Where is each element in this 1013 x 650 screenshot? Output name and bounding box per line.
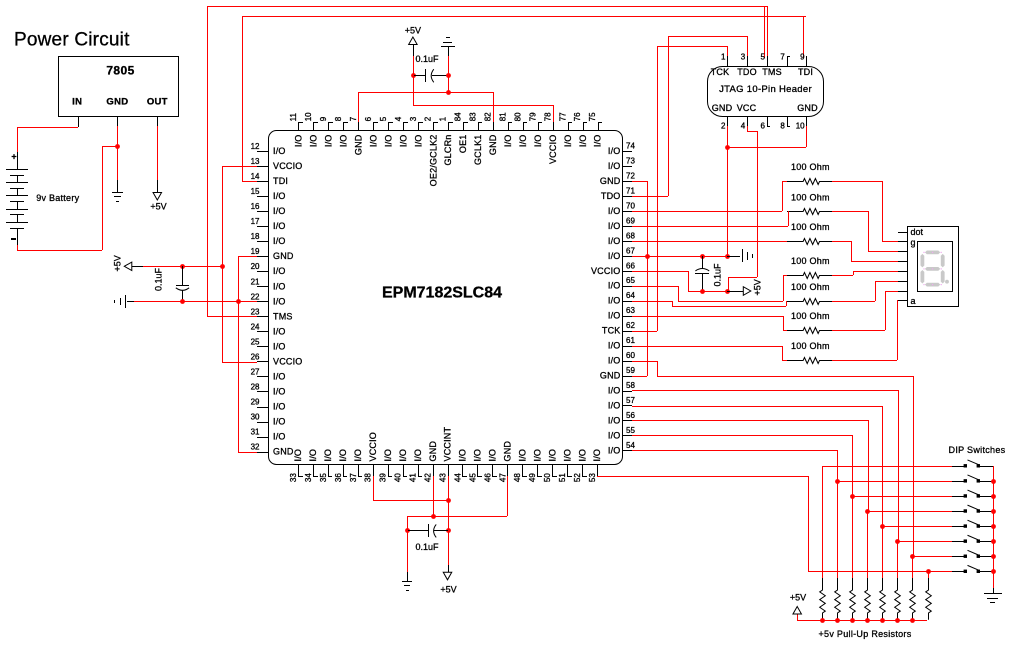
svg-text:4: 4 xyxy=(394,116,403,121)
svg-text:12: 12 xyxy=(251,142,260,151)
wire: column 2 down to pull-up RP2 xyxy=(837,481,839,578)
svg-text:GND: GND xyxy=(273,251,294,261)
svg-text:52: 52 xyxy=(573,473,582,482)
svg-text:TDO: TDO xyxy=(737,67,757,77)
svg-text:+5V: +5V xyxy=(113,255,123,271)
svg-text:I/O: I/O xyxy=(323,449,333,462)
junction: pull-up rail RP6 xyxy=(895,618,900,623)
svg-text:I/O: I/O xyxy=(273,266,286,276)
battery BT1 9v Battery xyxy=(6,151,80,245)
wire: ground rail pin42/pin47 to C3 left xyxy=(407,476,508,530)
wire: column 8 down to pull-up RP8 xyxy=(928,571,930,578)
svg-text:I/O: I/O xyxy=(578,135,588,148)
svg-text:TCK: TCK xyxy=(602,326,621,336)
svg-text:GND: GND xyxy=(600,176,621,186)
svg-text:JTAG 10-Pin Header: JTAG 10-Pin Header xyxy=(719,84,812,95)
ground: right of C2 xyxy=(727,249,753,262)
svg-text:79: 79 xyxy=(528,112,537,121)
svg-text:53: 53 xyxy=(588,473,597,482)
wire: TDO net J1 pin3 to U1 pin71 xyxy=(632,36,748,197)
svg-text:I/O: I/O xyxy=(488,449,498,462)
wire: R1 to display g xyxy=(832,181,898,242)
svg-text:67: 67 xyxy=(626,246,635,255)
svg-text:+5V: +5V xyxy=(753,279,763,295)
svg-text:I/O: I/O xyxy=(383,135,393,148)
wire: U1 pin68 to R3 xyxy=(632,241,787,243)
svg-text:1: 1 xyxy=(439,116,448,121)
svg-text:100 Ohm: 100 Ohm xyxy=(791,256,830,266)
svg-text:I/O: I/O xyxy=(518,135,528,148)
svg-text:TMS: TMS xyxy=(762,67,782,77)
svg-text:0.1uF: 0.1uF xyxy=(416,542,440,552)
svg-text:I/O: I/O xyxy=(339,135,349,148)
svg-text:a: a xyxy=(911,296,916,306)
svg-text:7: 7 xyxy=(349,116,358,121)
svg-text:I/O: I/O xyxy=(273,371,286,381)
svg-text:68: 68 xyxy=(626,231,635,240)
svg-text:I/O: I/O xyxy=(458,449,468,462)
capacitor C2 0.1uF xyxy=(695,256,722,291)
svg-text:28: 28 xyxy=(251,382,260,391)
svg-text:I/O: I/O xyxy=(608,400,621,410)
svg-text:100 Ohm: 100 Ohm xyxy=(791,282,830,292)
wire: +5V rail to C1 top xyxy=(143,266,222,268)
junction: DIP common row2 xyxy=(991,479,996,484)
U1 bottom pins 33-53 stubs/numbers/labels xyxy=(289,426,602,482)
svg-text:20: 20 xyxy=(251,262,260,271)
svg-text:I/O: I/O xyxy=(517,449,527,462)
junction: ground rail / pin19-pin32 branch xyxy=(236,299,241,304)
svg-text:I/O: I/O xyxy=(353,449,363,462)
svg-text:I/O: I/O xyxy=(398,135,408,148)
svg-text:56: 56 xyxy=(626,411,635,420)
junction: DIP common row7 xyxy=(991,554,996,559)
svg-text:I/O: I/O xyxy=(413,449,423,462)
svg-text:I/O: I/O xyxy=(273,146,286,156)
svg-text:I/O: I/O xyxy=(273,402,286,412)
wire: ground rail C1 bottom to U1 pin22 xyxy=(134,301,257,303)
wire: U1 pin70 to R1 xyxy=(632,181,787,212)
svg-text:TMS: TMS xyxy=(273,311,293,321)
wire: DIP row7 horizontal xyxy=(912,556,952,558)
svg-text:+5v Pull-Up Resistors: +5v Pull-Up Resistors xyxy=(818,629,911,639)
svg-text:21: 21 xyxy=(251,277,260,286)
svg-text:I/O: I/O xyxy=(293,449,303,462)
svg-text:9: 9 xyxy=(800,53,805,62)
label: +5v Pull-Up Resistors xyxy=(818,629,911,639)
U1 right pins 74-54 stubs/numbers/labels xyxy=(591,142,635,456)
svg-text:7: 7 xyxy=(780,53,785,62)
svg-text:g: g xyxy=(911,237,916,247)
wire: U1 pin54 to DIP row2 xyxy=(632,450,838,481)
voltage regulator U2 7805 xyxy=(59,57,179,128)
IC U1 EPM7182SLC84 body xyxy=(269,131,623,465)
wire: U1 pin69 to R2 xyxy=(632,211,789,227)
svg-text:15: 15 xyxy=(251,187,260,196)
svg-text:33: 33 xyxy=(289,473,298,482)
svg-text:31: 31 xyxy=(251,428,260,437)
svg-text:83: 83 xyxy=(469,112,478,121)
resistor R1 100 Ohm xyxy=(787,162,832,185)
junction: top ground rail xyxy=(446,90,451,95)
svg-text:37: 37 xyxy=(349,473,358,482)
svg-text:OE2/GCLK2: OE2/GCLK2 xyxy=(428,135,438,187)
svg-text:100 Ohm: 100 Ohm xyxy=(791,222,830,232)
svg-text:78: 78 xyxy=(543,112,552,121)
svg-text:I/O: I/O xyxy=(273,326,286,336)
svg-text:GND: GND xyxy=(428,441,438,462)
wire: +5V arrow down to C4 left xyxy=(413,44,415,75)
svg-text:dot: dot xyxy=(911,227,924,237)
svg-text:2: 2 xyxy=(424,116,433,121)
svg-text:70: 70 xyxy=(626,201,635,210)
svg-text:10: 10 xyxy=(304,112,313,121)
svg-text:6: 6 xyxy=(761,121,766,130)
ground: DIP switches xyxy=(984,588,1002,603)
junction: pin42 GND xyxy=(431,514,436,519)
svg-text:+: + xyxy=(11,152,16,162)
capacitor C1 0.1uF xyxy=(154,266,190,301)
capacitor C4 0.1uF xyxy=(413,54,448,82)
junction: DIP row8 / column 8 xyxy=(926,569,931,574)
svg-text:66: 66 xyxy=(626,261,635,270)
svg-text:35: 35 xyxy=(319,473,328,482)
svg-text:I/O: I/O xyxy=(608,161,621,171)
svg-text:I/O: I/O xyxy=(273,432,286,442)
svg-text:5: 5 xyxy=(761,53,766,62)
svg-text:63: 63 xyxy=(626,306,635,315)
junction: C1 top on +5V rail xyxy=(180,264,185,269)
svg-text:I/O: I/O xyxy=(608,386,621,396)
svg-text:I/O: I/O xyxy=(532,449,542,462)
wire: DIP row4 horizontal xyxy=(867,511,952,513)
svg-text:I/O: I/O xyxy=(398,449,408,462)
wire: U1 pin38 VCCIO to +5V branch xyxy=(373,476,448,501)
title: Power Circuit xyxy=(14,30,130,51)
svg-text:I/O: I/O xyxy=(608,146,621,156)
svg-text:I/O: I/O xyxy=(608,341,621,351)
svg-text:I/O: I/O xyxy=(608,430,621,440)
svg-text:VCCINT: VCCINT xyxy=(443,426,453,461)
wire: column 1 down to pull-up RP1 xyxy=(822,466,824,578)
junction: pull-up rail RP1 xyxy=(820,618,825,623)
wire: R7 to display a xyxy=(832,300,898,361)
ground: below C3 xyxy=(402,572,412,591)
resistor RP7 pull-up xyxy=(910,578,916,620)
svg-text:0.1uF: 0.1uF xyxy=(712,263,722,287)
wire: R3 to display e xyxy=(832,241,898,262)
svg-text:I/O: I/O xyxy=(608,206,621,216)
wire: TMS net J1 pin5 to U1 pin23 xyxy=(207,6,767,317)
svg-text:65: 65 xyxy=(626,276,635,285)
svg-text:54: 54 xyxy=(626,441,635,450)
resistor R6 100 Ohm xyxy=(787,311,832,333)
junction: DIP row2 / column 2 xyxy=(835,479,840,484)
svg-text:I/O: I/O xyxy=(273,281,286,291)
svg-text:I/O: I/O xyxy=(273,206,286,216)
junction: DIP common row5 xyxy=(991,524,996,529)
resistor RP5 pull-up xyxy=(880,578,886,620)
svg-text:VCCIO: VCCIO xyxy=(273,356,303,366)
U1 left pins 12-32 stubs/numbers/labels xyxy=(251,142,303,457)
wire: DIP row6 horizontal xyxy=(897,541,952,543)
svg-text:I/O: I/O xyxy=(273,296,286,306)
wire: TMS stub J1 pin5 (joins TMS net) xyxy=(767,6,769,56)
wire: column 5 down to pull-up RP5 xyxy=(882,526,884,578)
svg-text:I/O: I/O xyxy=(608,221,621,231)
switch SW6 DIP xyxy=(952,535,993,543)
svg-text:47: 47 xyxy=(498,473,507,482)
svg-text:13: 13 xyxy=(251,157,260,166)
switch SW5 DIP xyxy=(952,520,993,528)
svg-text:2: 2 xyxy=(721,121,726,130)
junction: C4 left xyxy=(411,73,416,78)
svg-text:75: 75 xyxy=(588,112,597,121)
wire: C4 right down to top ground rail xyxy=(448,75,450,92)
svg-text:GND: GND xyxy=(503,441,513,462)
svg-text:57: 57 xyxy=(626,396,635,405)
wire: R4 to display d xyxy=(832,271,898,276)
wire: R2 to display f xyxy=(832,211,898,252)
svg-text:61: 61 xyxy=(626,336,635,345)
switch SW8 DIP xyxy=(952,565,993,573)
junction: pull-up rail RP7 xyxy=(910,618,915,623)
power symbol: +5V pull-up rail xyxy=(790,593,806,614)
wire: U1 pin61 to R7 xyxy=(632,346,787,361)
wire: column 4 down to pull-up RP4 xyxy=(867,511,869,578)
svg-text:9: 9 xyxy=(319,116,328,121)
svg-text:26: 26 xyxy=(251,352,260,361)
junction: DIP common row8 xyxy=(991,569,996,574)
svg-text:32: 32 xyxy=(251,443,260,452)
svg-text:I/O: I/O xyxy=(608,296,621,306)
wire: U1 pin55 to DIP row3 xyxy=(632,435,853,496)
junction: C3 left xyxy=(405,528,410,533)
svg-text:I/O: I/O xyxy=(273,386,286,396)
svg-text:TDO: TDO xyxy=(601,191,621,201)
svg-text:64: 64 xyxy=(626,291,635,300)
svg-text:74: 74 xyxy=(626,142,635,151)
wire: column 3 down to pull-up RP3 xyxy=(852,496,854,578)
svg-text:82: 82 xyxy=(484,112,493,121)
connector J1 JTAG 10-Pin Header xyxy=(708,53,824,131)
svg-text:I/O: I/O xyxy=(533,135,543,148)
svg-text:3: 3 xyxy=(409,116,418,121)
svg-text:24: 24 xyxy=(251,322,260,331)
svg-text:40: 40 xyxy=(394,473,403,482)
svg-text:27: 27 xyxy=(251,367,260,376)
svg-text:I/O: I/O xyxy=(273,341,286,351)
wire: U1 pin53 to DIP row8 xyxy=(597,476,822,572)
wire: TCK net J1 pin1 to U1 pin62 xyxy=(632,46,728,332)
svg-text:GND: GND xyxy=(354,134,364,155)
wire: J1 pin2/pin10 GND down to ground rail xyxy=(727,126,807,256)
junction: J1 GND pins xyxy=(725,145,730,150)
svg-text:I/O: I/O xyxy=(608,415,621,425)
wire: column 6 down to pull-up RP6 xyxy=(897,541,899,578)
svg-text:I/O: I/O xyxy=(294,135,304,148)
switch SW7 DIP xyxy=(952,550,993,558)
ground: above C4 (inverted) xyxy=(441,38,455,76)
svg-text:I/O: I/O xyxy=(562,449,572,462)
svg-text:I/O: I/O xyxy=(324,135,334,148)
wire: U1 pin65 to R4 xyxy=(632,275,787,302)
svg-text:4: 4 xyxy=(741,121,746,130)
svg-text:GLCRn: GLCRn xyxy=(443,135,453,166)
svg-text:I/O: I/O xyxy=(273,191,286,201)
svg-text:I/O: I/O xyxy=(608,251,621,261)
ground: power circuit xyxy=(112,180,123,202)
svg-text:OE1: OE1 xyxy=(458,135,468,154)
wire: U1 pin42 GND down xyxy=(433,476,435,516)
svg-text:30: 30 xyxy=(251,413,260,422)
svg-text:EPM7182SLC84: EPM7182SLC84 xyxy=(382,285,502,302)
svg-text:TDI: TDI xyxy=(798,67,813,77)
svg-text:8: 8 xyxy=(334,116,343,121)
svg-text:45: 45 xyxy=(468,473,477,482)
svg-text:16: 16 xyxy=(251,202,260,211)
resistor R7 100 Ohm xyxy=(787,341,832,364)
junction: C2 bottom xyxy=(700,289,705,294)
wire: DIP row5 horizontal xyxy=(882,526,952,528)
svg-text:VCC: VCC xyxy=(737,103,757,113)
junction: DIP row4 / column 4 xyxy=(865,509,870,514)
wire: 7805 OUT to +5V xyxy=(157,126,159,180)
wire: column 7 down to pull-up RP7 xyxy=(912,556,914,578)
svg-text:I/O: I/O xyxy=(608,236,621,246)
junction: DIP row7 / column 7 xyxy=(910,554,915,559)
svg-text:I/O: I/O xyxy=(473,449,483,462)
svg-text:60: 60 xyxy=(626,351,635,360)
wire: U1 pin43 VCCINT down to +5V xyxy=(448,476,450,565)
junction: +5V rail / U1 pin13-pin26 branch xyxy=(220,264,225,269)
svg-text:0.1uF: 0.1uF xyxy=(154,267,164,291)
svg-text:22: 22 xyxy=(251,292,260,301)
wire: +5V to U1 pin78 VCCIO xyxy=(413,75,554,122)
wire: ground rail to U1 pin7 GND and pin82 GND xyxy=(358,92,494,122)
svg-text:77: 77 xyxy=(558,112,567,121)
resistor R3 100 Ohm xyxy=(787,222,832,245)
resistor R4 100 Ohm xyxy=(787,256,832,279)
wire: 7805 GND pin to ground xyxy=(117,126,119,180)
power symbol: +5V below C3 xyxy=(440,565,456,594)
svg-text:GND: GND xyxy=(712,103,733,113)
resistor R2 100 Ohm xyxy=(787,192,832,214)
power symbol: +5V at 7805 OUT xyxy=(150,180,166,212)
svg-text:I/O: I/O xyxy=(592,449,602,462)
svg-text:5: 5 xyxy=(379,116,388,121)
svg-text:+5V: +5V xyxy=(405,26,421,36)
wire: battery - up to 7805 GND node xyxy=(17,146,117,251)
junction: pull-up rail RP2 xyxy=(835,618,840,623)
switch SW4 DIP xyxy=(952,505,993,513)
svg-text:+5V: +5V xyxy=(150,202,166,212)
svg-text:I/O: I/O xyxy=(563,135,573,148)
resistor RP2 pull-up xyxy=(835,578,841,620)
svg-text:11: 11 xyxy=(289,112,298,121)
svg-text:19: 19 xyxy=(251,247,260,256)
svg-text:GCLK1: GCLK1 xyxy=(473,135,483,166)
svg-text:I/O: I/O xyxy=(608,356,621,366)
svg-text:29: 29 xyxy=(251,398,260,407)
svg-text:10: 10 xyxy=(796,121,805,130)
wire: TDI net J1 pin9 to U1 pin14 xyxy=(242,16,806,182)
svg-text:36: 36 xyxy=(334,473,343,482)
wire: ground rail U1 pin67 to ground symbol xyxy=(632,256,727,258)
svg-text:GND: GND xyxy=(488,134,498,155)
wire: +5V rail U1 pin66 VCCIO to +5V symbol xyxy=(632,271,727,292)
wire: U1 pin63 to R6 xyxy=(632,316,787,331)
svg-text:DIP Switches: DIP Switches xyxy=(949,445,1006,455)
svg-text:55: 55 xyxy=(626,426,635,435)
wire: J1 pin4 VCC down to +5V rail xyxy=(728,126,758,291)
power symbol: +5V left of C1 xyxy=(113,255,144,271)
svg-text:I/O: I/O xyxy=(413,135,423,148)
svg-text:39: 39 xyxy=(379,473,388,482)
wire: DIP common to ground xyxy=(993,466,995,588)
junction: DIP common row4 xyxy=(991,509,996,514)
wire: +5V branch to U1 pin13 VCCIO and pin26 VCCIO xyxy=(222,166,257,363)
wire: C3 left down to ground xyxy=(407,530,409,572)
svg-text:I/O: I/O xyxy=(608,445,621,455)
svg-text:I/O: I/O xyxy=(338,449,348,462)
svg-text:VCCIO: VCCIO xyxy=(591,266,621,276)
resistor RP8 pull-up xyxy=(926,578,932,620)
svg-text:25: 25 xyxy=(251,337,260,346)
svg-text:51: 51 xyxy=(558,473,567,482)
junction: C2 top xyxy=(700,254,705,259)
svg-text:I/O: I/O xyxy=(547,449,557,462)
svg-text:I/O: I/O xyxy=(608,281,621,291)
wire: DIP row3 horizontal xyxy=(852,496,952,498)
svg-text:49: 49 xyxy=(528,473,537,482)
wire: DIP row2 horizontal xyxy=(837,481,952,483)
svg-text:I/O: I/O xyxy=(608,311,621,321)
svg-text:62: 62 xyxy=(626,321,635,330)
junction: pull-up rail RP5 xyxy=(880,618,885,623)
svg-text:I/O: I/O xyxy=(273,417,286,427)
svg-text:43: 43 xyxy=(439,473,448,482)
junction: C3 right on +5V xyxy=(446,528,451,533)
svg-text:84: 84 xyxy=(454,112,463,121)
svg-text:58: 58 xyxy=(626,381,635,390)
wire: U1 pin57 to DIP row5 xyxy=(632,406,883,526)
junction: DIP row5 / column 5 xyxy=(880,524,885,529)
svg-text:46: 46 xyxy=(483,473,492,482)
svg-text:+5V: +5V xyxy=(790,593,806,603)
svg-text:42: 42 xyxy=(424,473,433,482)
svg-text:38: 38 xyxy=(364,473,373,482)
svg-text:6: 6 xyxy=(364,116,373,121)
svg-text:69: 69 xyxy=(626,216,635,225)
svg-text:OUT: OUT xyxy=(147,97,168,108)
svg-text:GND: GND xyxy=(106,97,128,108)
switch SW1 DIP xyxy=(952,460,993,468)
wire: R6 to display b xyxy=(832,291,898,331)
junction: pin38 branch xyxy=(446,498,451,503)
wire: U1 pin64 to R5 xyxy=(632,301,787,307)
svg-text:72: 72 xyxy=(626,171,635,180)
wire: DIP row8 horizontal xyxy=(822,571,952,573)
svg-text:Power Circuit: Power Circuit xyxy=(14,30,130,51)
svg-text:I/O: I/O xyxy=(273,221,286,231)
svg-text:IN: IN xyxy=(72,97,82,108)
junction: DIP common row6 xyxy=(991,539,996,544)
display DS1 7-segment with dot/g/a labels xyxy=(898,227,959,307)
svg-text:I/O: I/O xyxy=(368,135,378,148)
svg-text:50: 50 xyxy=(543,473,552,482)
capacitor C3 0.1uF xyxy=(407,524,448,552)
